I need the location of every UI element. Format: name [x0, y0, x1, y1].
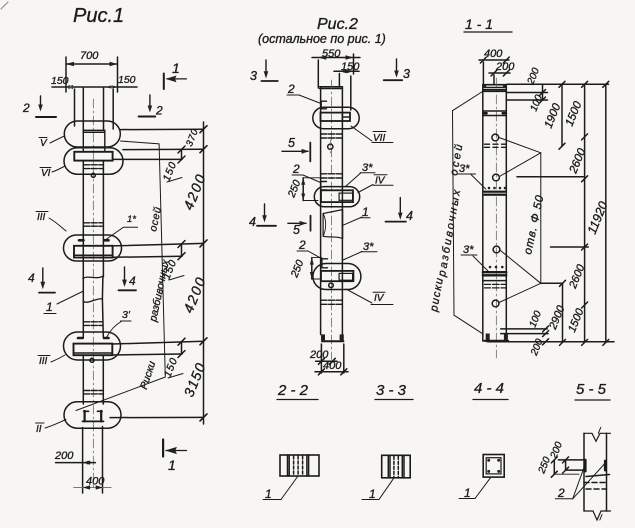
line plate III bottom: [113, 256, 182, 257]
node oval VI: [64, 148, 123, 174]
axis riska line (down from node VI): [76, 141, 165, 411]
dim 200 sec1-1: [489, 61, 515, 84]
svg-text:1*: 1*: [127, 214, 136, 225]
stitch dots row 2: [488, 187, 507, 190]
svg-text:370: 370: [184, 127, 201, 148]
centreline fig2: [331, 80, 333, 360]
column 1-1 outline: [483, 85, 507, 342]
label 3* upper sec1-1: [458, 163, 486, 189]
section mark 5 lower: [288, 216, 311, 237]
dim 150 node III: [161, 241, 185, 282]
svg-text:150: 150: [51, 75, 69, 87]
dim 200 bottom fig1: [54, 450, 95, 465]
svg-text:4: 4: [406, 209, 413, 223]
anchor weld marks node III: [79, 239, 84, 242]
hole below node IV lower: [329, 283, 334, 288]
tie dashes below splice: [485, 284, 507, 288]
detail plate 2 lower: [322, 259, 328, 268]
svg-text:1: 1: [172, 60, 180, 76]
lines across strip 5-5: [558, 460, 609, 489]
svg-text:IV: IV: [374, 293, 385, 304]
svg-text:1500: 1500: [564, 99, 585, 128]
box 2-2: [280, 455, 319, 476]
tie dashes above node II: [84, 391, 103, 394]
svg-text:2: 2: [287, 82, 295, 96]
hole below plate: [90, 358, 94, 362]
svg-text:1500: 1500: [566, 306, 587, 334]
svg-text:4200: 4200: [180, 171, 209, 213]
dim 400 sec1-1: [479, 48, 509, 84]
head lines: [483, 89, 507, 91]
hole 4: [492, 300, 499, 307]
svg-text:VI: VI: [41, 168, 51, 179]
svg-text:4: 4: [249, 215, 256, 229]
flange plate node III: [74, 246, 113, 258]
dimension 700: [66, 50, 118, 92]
column centreline: [92, 99, 94, 490]
splice band mid-upper: [483, 191, 507, 196]
splice band mid-lower: [483, 272, 507, 280]
dim line hole2: [517, 176, 585, 178]
line node II to chain end: [110, 416, 204, 418]
label V: [39, 136, 65, 149]
node oval VII: [313, 107, 359, 128]
dim 200 fig2 bottom: [309, 349, 337, 364]
column fig2 top edge: [320, 87, 343, 89]
dim 200 right top: [525, 66, 545, 113]
svg-text:200: 200: [495, 61, 515, 73]
svg-text:2: 2: [557, 486, 565, 500]
hole 2: [493, 174, 500, 181]
corner speck: [1, 2, 8, 9]
svg-text:400: 400: [86, 476, 105, 488]
svg-text:3*: 3*: [362, 162, 373, 174]
hole below node VI: [91, 173, 95, 177]
svg-text:Рис.1: Рис.1: [73, 5, 124, 27]
label 1 of 3-3: [362, 478, 394, 501]
svg-text:1: 1: [46, 300, 53, 314]
svg-text:(остальное по рис. 1): (остальное по рис. 1): [258, 32, 386, 46]
column fig2 shaft: [320, 87, 322, 335]
node oval V: [64, 121, 120, 147]
label 1*: [105, 214, 138, 241]
column stub below node II: [82, 428, 84, 494]
svg-text:4: 4: [28, 271, 35, 285]
svg-text:Рис.2: Рис.2: [317, 16, 358, 33]
tie dashes below node VII: [321, 134, 342, 138]
svg-text:3 - 3: 3 - 3: [376, 382, 407, 399]
svg-text:II: II: [36, 424, 42, 435]
column shaft to node II: [82, 355, 84, 404]
item label 1 fig1: [44, 291, 84, 314]
node oval III lower: [64, 332, 121, 360]
section mark 3 right: [384, 59, 410, 81]
item label 1 fig2: [342, 205, 370, 226]
svg-text:100: 100: [528, 309, 545, 329]
line node V to chain: [120, 128, 204, 130]
tie dashes above node III: [84, 223, 103, 226]
hole 3: [493, 246, 500, 253]
label IV upper: [358, 175, 393, 193]
line plate III2 top to chain: [112, 341, 203, 344]
title 5-5: [575, 381, 610, 400]
section mark 4 left: [28, 268, 55, 293]
svg-text:700: 700: [80, 50, 99, 62]
svg-text:III: III: [39, 356, 48, 367]
svg-text:5: 5: [293, 223, 300, 237]
column strip 5-5: [584, 427, 611, 520]
dim 2900: [547, 280, 568, 345]
main dimension chain line fig1: [200, 122, 207, 424]
centreline 1-1: [495, 78, 497, 358]
svg-text:5: 5: [288, 136, 295, 150]
tie dashes below node IV lower: [321, 300, 342, 304]
svg-text:3: 3: [403, 67, 410, 81]
svg-text:2900: 2900: [547, 303, 568, 332]
label 3* upper: [346, 162, 375, 186]
column shaft to node III2: [82, 301, 84, 338]
joint patch fig1: [83, 276, 103, 302]
label III: [36, 212, 66, 232]
dimension 550: [312, 48, 360, 88]
section mark 5 upper: [282, 136, 310, 161]
node oval III: [64, 235, 122, 261]
hole fig2: [328, 144, 333, 149]
svg-text:3150: 3150: [180, 360, 208, 399]
svg-text:риски: риски: [428, 276, 446, 314]
label 3' fig1: [107, 309, 132, 338]
base shoe 1-1: [485, 334, 509, 342]
base bracket in node II: [83, 411, 104, 422]
section mark 4 right fig2: [386, 198, 414, 223]
top dim line long: [507, 83, 609, 85]
svg-text:Риски: Риски: [138, 360, 158, 391]
svg-text:400: 400: [323, 360, 342, 372]
label III lower: [38, 355, 65, 367]
dim 150 node VI: [161, 146, 185, 183]
label VII: [351, 126, 393, 144]
tie dashes mid fig2: [321, 174, 342, 178]
title 3-3: [375, 382, 413, 400]
right line y92.5: [507, 92, 548, 94]
svg-text:1: 1: [464, 486, 471, 500]
line plate VI top to chain: [123, 148, 203, 150]
svg-text:2600: 2600: [567, 146, 588, 176]
dimension 150 right: [106, 74, 136, 89]
dim 250 lower fig2: [288, 258, 322, 280]
svg-text:III: III: [37, 212, 46, 223]
dim 250 5-5: [536, 455, 579, 477]
column top extension lines: [74, 89, 76, 126]
svg-text:3*: 3*: [363, 241, 374, 253]
riski bracket sec1-1: [453, 90, 486, 335]
svg-text:150: 150: [118, 74, 136, 86]
dim 1900: [543, 81, 565, 149]
label 1 of 4-4: [459, 477, 491, 500]
svg-text:2 - 2: 2 - 2: [277, 382, 309, 399]
svg-text:отв. Ф 50: отв. Ф 50: [522, 194, 546, 256]
svg-text:200: 200: [54, 450, 74, 462]
label 2 middle: [292, 162, 321, 183]
svg-text:1: 1: [265, 487, 272, 501]
svg-text:11920: 11920: [585, 199, 611, 236]
dim 250 upper fig2: [285, 178, 320, 201]
node oval II: [64, 402, 121, 428]
bottom dims sec1-1: [487, 309, 614, 358]
section mark 2 left: [22, 96, 56, 117]
label IV lower: [346, 289, 393, 305]
svg-text:1 - 1: 1 - 1: [465, 16, 493, 32]
svg-text:2: 2: [22, 101, 30, 115]
dim 400 bottom fig1: [74, 476, 112, 490]
dimension 150 left: [51, 75, 137, 89]
column fig2 bottom anchor hooks: [321, 334, 344, 341]
line plate III top to chain: [113, 243, 204, 246]
bracket plate node IV upper: [321, 190, 353, 202]
section mark 4 right: [119, 267, 137, 290]
tie dashes below node VI: [84, 165, 103, 169]
label VI: [40, 166, 65, 179]
label 2 lower: [297, 238, 322, 259]
svg-text:200: 200: [529, 337, 546, 358]
node oval IV upper: [314, 187, 359, 207]
svg-text:разбивочных: разбивочных: [436, 187, 464, 279]
svg-text:4200: 4200: [180, 274, 209, 316]
flange plate node VI: [74, 152, 112, 161]
svg-text:1: 1: [168, 457, 176, 473]
box 3-3: [382, 455, 411, 478]
detail plate 2 middle: [321, 182, 327, 191]
svg-text:4: 4: [129, 274, 136, 288]
flange plate node III lower: [74, 344, 113, 356]
svg-text:3*: 3*: [463, 244, 474, 256]
anchor weld marks node III lower: [78, 337, 83, 340]
console rectangle in node V: [83, 130, 105, 152]
line plate VI bottom: [113, 158, 182, 160]
tie dashes below hole 1: [485, 144, 506, 147]
dim 200 5-5: [548, 440, 568, 473]
tie dashes above node III2: [84, 322, 103, 326]
bracket plate node IV lower: [321, 271, 353, 281]
connector line to 2900 chain: [541, 282, 563, 284]
svg-text:1900: 1900: [543, 101, 564, 130]
svg-text:V: V: [40, 138, 48, 149]
svg-text:250: 250: [536, 455, 553, 476]
node oval IV lower: [313, 264, 361, 290]
svg-text:2: 2: [292, 162, 300, 176]
dim 400 fig2 bottom: [315, 360, 348, 375]
svg-text:3': 3': [122, 309, 131, 321]
otv leader lines: [499, 138, 541, 303]
svg-text:2: 2: [298, 238, 306, 252]
section mark 4 left fig2: [249, 204, 276, 229]
dim 150 node III2: [162, 338, 185, 379]
dim 11920: [585, 81, 611, 345]
dimension 150 fig2: [334, 61, 360, 110]
section mark 1 top: [164, 60, 187, 89]
stitch dots row 3: [489, 266, 504, 269]
bracket plate node VII: [321, 113, 351, 121]
label 1 of 2-2: [263, 476, 298, 501]
dim line hole3: [551, 246, 589, 248]
svg-text:3: 3: [250, 69, 257, 83]
box 4-4: [483, 455, 504, 478]
svg-text:400: 400: [484, 48, 503, 60]
svg-text:1: 1: [369, 487, 376, 501]
title 1-1: [464, 16, 512, 32]
detail plate 2 upper: [321, 101, 326, 109]
dim chain x584.6: [564, 81, 589, 345]
column shaft below node VI: [82, 161, 84, 278]
label 3* lower: [343, 241, 377, 260]
label 3* lower sec1-1: [461, 244, 488, 271]
riska marks 5-5: [585, 460, 605, 471]
title 4-4: [473, 380, 508, 400]
section mark 2 right: [139, 95, 163, 118]
hole 1: [492, 134, 499, 141]
label 2 upper: [287, 82, 321, 104]
svg-text:5 - 5: 5 - 5: [576, 381, 607, 398]
label 2 of 5-5: [555, 462, 604, 500]
axis band top: [483, 111, 507, 116]
section mark 3 left: [250, 60, 278, 83]
label II: [36, 420, 67, 436]
title 2-2: [277, 382, 318, 400]
right line y100: [507, 99, 548, 101]
svg-text:1: 1: [362, 205, 369, 219]
section mark 1 bottom: [163, 440, 186, 474]
svg-text:2: 2: [155, 104, 163, 118]
svg-text:250: 250: [288, 258, 306, 280]
joint patch fig2: [323, 210, 342, 239]
line plate III2 bottom: [112, 354, 182, 355]
svg-text:250: 250: [285, 178, 303, 200]
extension lines below fig2: [320, 344, 322, 373]
svg-text:4 - 4: 4 - 4: [474, 380, 504, 397]
